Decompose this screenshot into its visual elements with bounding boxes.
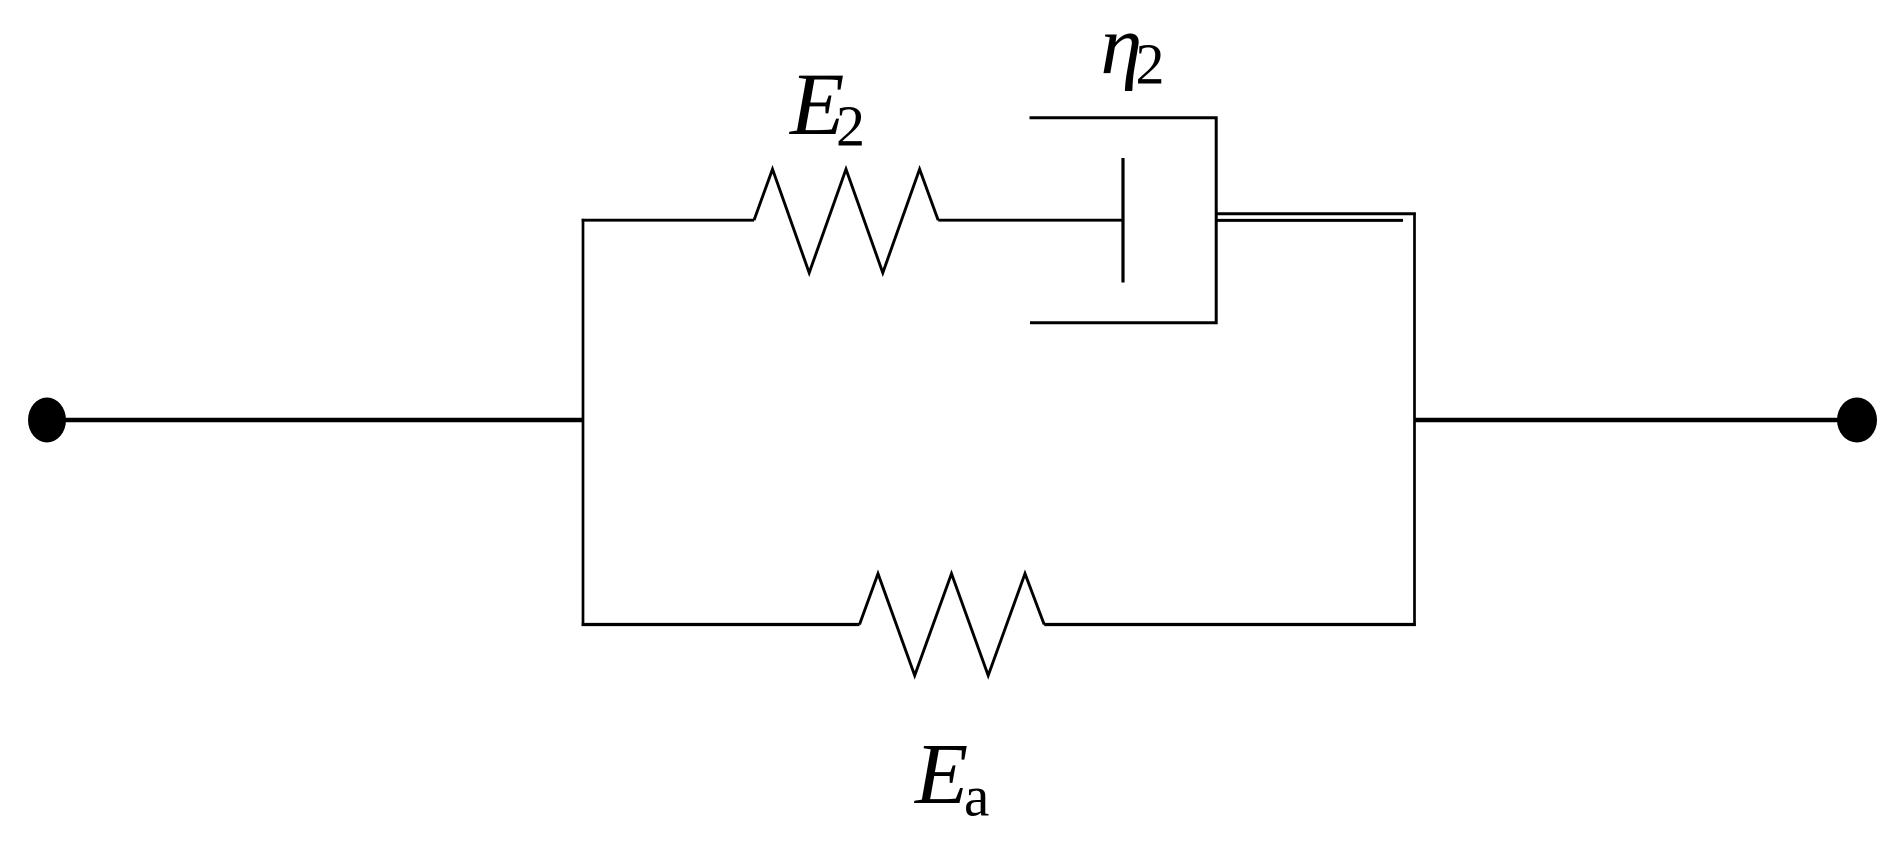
svg-text:E: E xyxy=(913,725,968,822)
svg-text:a: a xyxy=(964,766,989,829)
svg-text:2: 2 xyxy=(836,94,865,159)
svg-text:2: 2 xyxy=(1136,32,1165,97)
